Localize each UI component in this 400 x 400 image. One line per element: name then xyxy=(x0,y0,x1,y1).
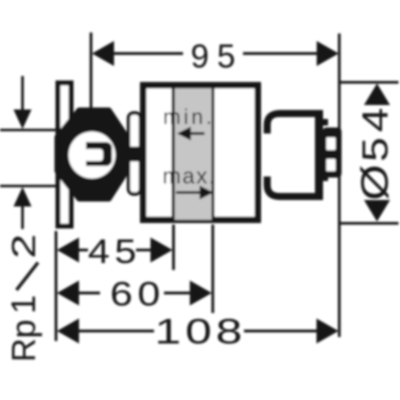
svg-text:max.: max. xyxy=(162,164,216,189)
dim 108 right arrow xyxy=(317,319,339,344)
Rp12 dim line top xyxy=(21,76,24,112)
Rp12 dim line bottom xyxy=(21,204,24,229)
Rp12 top arrow xyxy=(14,110,32,130)
dia54 top arrow xyxy=(364,84,390,106)
hex union nut xyxy=(57,110,127,199)
cartridge window 2 xyxy=(326,159,335,171)
retaining bracket xyxy=(129,113,141,194)
right cup top arm xyxy=(267,114,319,134)
main body xyxy=(143,85,258,220)
dim 60 line left stub xyxy=(77,292,100,295)
svg-text:2: 2 xyxy=(6,234,42,259)
pipe opening circle xyxy=(69,132,116,179)
right cup wall xyxy=(315,110,323,200)
dim 60 right arrow xyxy=(190,281,212,306)
dim 45 line left stub xyxy=(77,249,88,252)
dim 60 extension line xyxy=(211,225,214,314)
gray zone left border xyxy=(172,88,175,219)
svg-text:Rp1: Rp1 xyxy=(5,295,43,362)
cartridge nub bottom xyxy=(320,175,329,182)
right extension line (95/108) xyxy=(338,34,341,338)
wall plate (flange) xyxy=(58,83,71,226)
Rp12 slash glyph xyxy=(17,263,39,291)
cartridge window 1 xyxy=(326,137,335,150)
gray zone right border xyxy=(212,88,215,219)
dia54 top extension line xyxy=(340,81,399,84)
dim 108 left arrow xyxy=(57,319,79,344)
dim 45 line right stub xyxy=(136,249,152,252)
bottom-left extension line xyxy=(55,231,58,341)
dim 60 left arrow xyxy=(57,281,79,306)
svg-text:95: 95 xyxy=(191,38,244,75)
dim 95 line left stub xyxy=(108,52,183,55)
dim 45 left arrow xyxy=(57,238,79,263)
hex-to-body connector xyxy=(125,147,143,162)
dim 95 line right stub xyxy=(243,52,322,55)
dim 45 right arrow xyxy=(151,238,173,263)
Rp12 bottom extension line xyxy=(0,185,57,188)
adjustment zone (gray stripe) xyxy=(175,88,212,219)
inner socket detail xyxy=(86,142,112,166)
svg-text:45: 45 xyxy=(88,233,141,271)
min arrow xyxy=(191,132,205,135)
dim 108 line left stub xyxy=(77,330,154,333)
svg-text:60: 60 xyxy=(110,275,165,313)
dim 95 left arrow xyxy=(92,41,114,66)
cartridge nub top xyxy=(320,119,329,126)
dim 60 line right stub xyxy=(164,292,192,295)
Rp12 bottom arrow xyxy=(14,187,32,207)
dim 95 right arrow xyxy=(317,41,339,66)
dim 108 line right stub xyxy=(244,330,320,333)
svg-text:108: 108 xyxy=(155,312,247,351)
right cup bottom arm xyxy=(267,177,319,197)
dim 45 extension line xyxy=(172,225,175,271)
dim 95 left extension line xyxy=(90,33,93,111)
Rp12 top extension line xyxy=(0,129,57,132)
svg-text:min.: min. xyxy=(163,106,215,129)
dia54 bottom extension line xyxy=(340,222,399,225)
cartridge box xyxy=(323,128,342,178)
max arrow xyxy=(176,191,200,194)
dia54 bottom arrow xyxy=(364,200,390,222)
svg-text:Ø54: Ø54 xyxy=(353,108,395,201)
